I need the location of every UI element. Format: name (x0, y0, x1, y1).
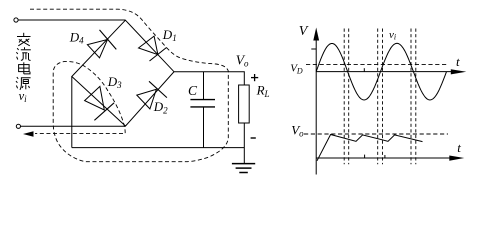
curve: input sine wave vi (316, 43, 446, 100)
wire: left corner (negative node) down to return rail (71, 77, 73, 148)
svg-text:t: t (456, 54, 460, 69)
wire: dashed VD level line (306, 64, 448, 66)
label: Chinese 源 (yuan) (16, 77, 31, 90)
label: Chinese 电 (dian) (19, 62, 30, 74)
arrow: top t axis arrowhead (451, 69, 467, 74)
label: Chinese 交 (jiao) (17, 33, 31, 46)
label plus sign (251, 74, 258, 81)
wire: AC top wire from terminal to bridge top corner (18, 19, 125, 21)
wire: AC bottom wire from terminal to bridge bottom corner (20, 125, 125, 127)
tick: top t axis tick at trough (363, 68, 365, 71)
ground (232, 164, 255, 173)
node: diamond bridge outline (4 edges) (72, 20, 174, 126)
diode D4 (upper-left arm) (87, 30, 116, 58)
arrow: bottom t axis arrowhead (449, 156, 464, 161)
terminal: AC input top (14, 18, 18, 22)
arrow: return current arrowhead (points left at bottom AC wire) (23, 131, 34, 136)
label: Chinese 流 (liu) (16, 47, 30, 60)
diode D2 (lower-right arm) (137, 81, 167, 109)
diode D3 (lower-left arm) (85, 86, 115, 120)
wire: capacitor top lead (203, 72, 205, 100)
wire: capacitor bottom lead (203, 107, 205, 148)
axis: bottom t axis (316, 157, 450, 159)
tick: bottom t axis tick 1 (364, 155, 366, 158)
resistor RL body (239, 85, 250, 123)
label minus sign (251, 137, 256, 139)
curve: filtered output voltage sawtooth (317, 135, 423, 161)
arrow: V axis arrowhead (313, 28, 319, 41)
wire: dashed current-flow loop (single loop through D1 and D3) (30, 9, 228, 162)
tick: bottom t axis tick 2 (384, 155, 386, 158)
svg-text:V: V (299, 24, 309, 39)
axis: top t axis (316, 71, 452, 73)
svg-text:C: C (188, 83, 198, 98)
terminal: AC input bottom (16, 124, 20, 128)
axis: shared V axis vertical line (315, 35, 317, 175)
wire: positive output wire from right corner to RL (174, 72, 244, 85)
diode D1 (upper-right arm) (139, 36, 167, 61)
wire: dashed Vo level line (304, 133, 448, 135)
svg-text:t: t (457, 140, 461, 155)
wire: ground return rail (72, 147, 245, 149)
wire: six vertical dashed conduction-interval lines (344, 29, 416, 165)
wire: RL bottom lead down to ground (243, 123, 245, 163)
tick: V axis peak tick (311, 48, 316, 50)
capacitor C plates (190, 100, 215, 107)
